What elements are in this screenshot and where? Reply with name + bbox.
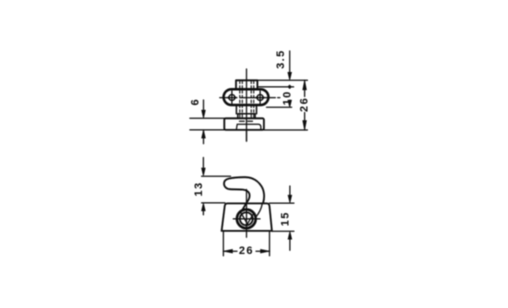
svg-text:15: 15 [280,211,292,226]
svg-text:13: 13 [193,181,205,196]
svg-text:3.5: 3.5 [275,49,287,69]
svg-text:26: 26 [239,245,254,257]
svg-text:6: 6 [189,98,201,106]
svg-text:26: 26 [299,97,311,112]
svg-text:10: 10 [282,90,294,105]
